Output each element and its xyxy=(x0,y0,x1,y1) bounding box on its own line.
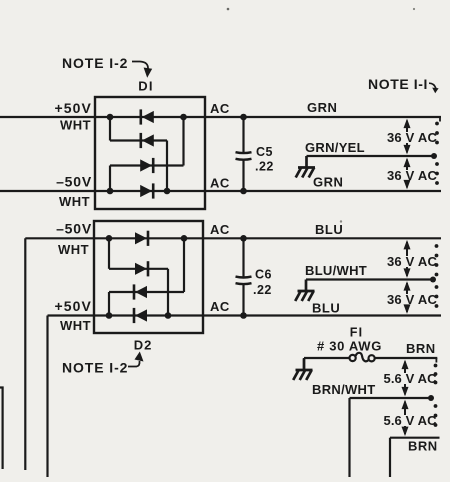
diode D2b (-50V to AC bottom) xyxy=(147,261,150,276)
wire BRN bottom drop to page bottom xyxy=(389,438,391,477)
wire center tap GRN/YEL xyxy=(307,155,435,157)
svg-text:DI: DI xyxy=(138,79,153,94)
node +50V at D2 bottom-left xyxy=(106,312,113,319)
wire D2 vertical row2 to AC bottom xyxy=(167,269,169,316)
wire center tap BLU/WHT xyxy=(306,278,433,280)
svg-text:AC: AC xyxy=(210,101,230,116)
wire +50V line / AC bottom (BLU winding) xyxy=(48,314,442,316)
wire D2 vertical AC top to row3 xyxy=(183,238,185,292)
svg-text:AC: AC xyxy=(210,222,230,237)
wire C6 bottom lead xyxy=(242,284,244,316)
dimension arrow 36VAC upper (BLU) xyxy=(404,240,411,278)
wire D2 row3 (to +50V) xyxy=(109,291,184,293)
svg-text:+50V: +50V xyxy=(55,100,93,116)
dotted continuation BRN winding upper xyxy=(434,364,438,368)
dimension arrow 36VAC lower (GRN) xyxy=(404,158,411,190)
wire D2 left vertical -50V to row2 xyxy=(108,238,110,268)
svg-text:5.6 V AC: 5.6 V AC xyxy=(384,371,438,386)
wire D2 row2 (to -50V) xyxy=(109,268,168,270)
diode D2c (AC top to +50V) xyxy=(133,284,136,299)
svg-text:WHT: WHT xyxy=(58,242,89,257)
diode D1a (AC top to +50V) xyxy=(140,109,143,124)
dotted continuation GRN winding lower xyxy=(435,162,439,166)
wire BRN drop to ground xyxy=(303,358,305,371)
svg-text:36 V AC: 36 V AC xyxy=(387,254,437,269)
node AC top at D1 top-right xyxy=(180,114,187,121)
svg-text:BRN/WHT: BRN/WHT xyxy=(312,382,375,397)
wire C5 bottom lead xyxy=(242,159,244,191)
capacitor C5 plates xyxy=(236,151,252,154)
diode D1d (-50V to AC bottom) xyxy=(152,183,155,198)
wire -50V drop to page bottom xyxy=(24,238,26,470)
wire D1 row3 (to -50V) xyxy=(110,164,184,166)
svg-text:36 V AC: 36 V AC xyxy=(387,130,437,145)
wire +50V line / AC top (GRN winding) xyxy=(0,116,441,118)
capacitor C6 plates xyxy=(236,275,252,278)
dotted continuation BLU winding lower xyxy=(435,285,439,289)
svg-text:36 V AC: 36 V AC xyxy=(387,292,437,307)
wire D1 left vertical +50V to row2 xyxy=(109,117,111,141)
arrow hook after NOTE 1-1 xyxy=(429,83,436,88)
diode D2a (-50V to AC top) xyxy=(147,231,150,246)
svg-text:36 V AC: 36 V AC xyxy=(387,168,437,183)
wire -50V line / AC top (BLU winding) xyxy=(25,237,441,239)
wire D1 vertical row2 to AC bottom xyxy=(166,141,168,192)
node C6 top junction xyxy=(240,235,247,242)
svg-text:–50V: –50V xyxy=(56,221,92,237)
svg-text:BLU: BLU xyxy=(315,222,343,237)
wire D1 vertical AC top to row3 xyxy=(182,117,184,166)
svg-text:NOTE I-2: NOTE I-2 xyxy=(62,55,128,71)
svg-text:WHT: WHT xyxy=(60,318,91,333)
wire C5 top lead xyxy=(242,117,244,153)
svg-text:WHT: WHT xyxy=(60,118,91,133)
node -50V at D2 top-left xyxy=(106,235,113,242)
svg-text:GRN/YEL: GRN/YEL xyxy=(305,140,365,155)
dotted continuation BRN winding lower xyxy=(434,404,438,408)
wire center tap BRN/WHT xyxy=(350,397,432,399)
svg-text:BRN: BRN xyxy=(406,341,436,356)
node GRN/YEL right end xyxy=(431,153,437,159)
svg-text:.22: .22 xyxy=(253,283,272,297)
dimension arrow 5.6VAC upper xyxy=(402,360,409,397)
ground at BLU center tap xyxy=(295,280,314,302)
node BRN/WHT right end xyxy=(428,395,434,401)
wire D2 left vertical row3 to +50V xyxy=(108,292,110,316)
wire D1 row2 (to +50V) xyxy=(110,139,167,141)
wire -50V line / AC bottom (GRN winding) xyxy=(0,190,441,192)
diode D2d (AC bottom to +50V) xyxy=(133,308,136,323)
fuse F1 xyxy=(353,353,372,364)
svg-text:5.6 V AC: 5.6 V AC xyxy=(384,413,438,428)
svg-text:+50V: +50V xyxy=(55,298,93,314)
svg-text:NOTE I-I: NOTE I-I xyxy=(368,76,428,92)
dotted continuation BLU winding upper xyxy=(435,244,439,248)
wire BRN bottom lead xyxy=(390,437,440,439)
dotted continuation GRN winding upper xyxy=(435,122,439,126)
wire +50V drop to page bottom xyxy=(46,316,48,478)
node -50V at D1 bottom-left xyxy=(107,188,114,195)
svg-text:AC: AC xyxy=(210,299,230,314)
node C5 bottom junction xyxy=(240,188,247,195)
dimension arrow 36VAC upper (GRN) xyxy=(404,119,411,155)
arrow from lower NOTE 1-2 to D2 xyxy=(128,361,140,367)
svg-text:C6: C6 xyxy=(255,268,272,282)
svg-text:NOTE I-2: NOTE I-2 xyxy=(62,360,128,376)
wire D1 left vertical row3 to -50V xyxy=(109,166,111,192)
node +50V at D1 top-left xyxy=(107,114,114,121)
svg-text:BRN: BRN xyxy=(408,439,438,454)
svg-text:# 30 AWG: # 30 AWG xyxy=(317,339,382,354)
diode D1b (AC bottom to +50V) xyxy=(140,133,143,148)
svg-text:GRN: GRN xyxy=(307,100,337,115)
node C6 bottom junction xyxy=(240,312,247,319)
diode D1c (-50V to AC top) xyxy=(152,158,155,173)
node AC bottom at D2 bottom-right xyxy=(165,312,172,319)
node AC top at D2 top-right xyxy=(181,235,188,242)
node C5 top junction xyxy=(240,114,247,121)
svg-text:GRN: GRN xyxy=(313,175,343,190)
svg-text:FI: FI xyxy=(350,326,364,340)
dimension arrow 5.6VAC lower xyxy=(402,400,409,437)
svg-text:AC: AC xyxy=(210,176,230,191)
svg-text:WHT: WHT xyxy=(59,194,90,209)
svg-text:–50V: –50V xyxy=(56,174,92,190)
bridge rectifier D1 outline xyxy=(95,97,205,209)
svg-text:C5: C5 xyxy=(256,145,273,159)
arrow from NOTE 1-2 to D1 xyxy=(132,62,148,70)
svg-text:.22: .22 xyxy=(255,160,274,174)
ground at BRN lead xyxy=(293,359,312,381)
wire BRN/WHT drop to page bottom xyxy=(348,398,350,477)
node BLU/WHT right end xyxy=(430,277,436,283)
wire from left edge down to page bottom xyxy=(0,388,3,470)
svg-text:BLU: BLU xyxy=(312,301,340,316)
dimension arrow 36VAC lower (BLU) xyxy=(404,281,411,314)
svg-text:D2: D2 xyxy=(134,338,153,353)
wire C6 top lead xyxy=(242,238,244,277)
node AC bottom at D1 bottom-right xyxy=(164,188,171,195)
svg-text:BLU/WHT: BLU/WHT xyxy=(305,263,367,278)
bridge rectifier D2 outline xyxy=(94,221,203,333)
ground at GRN center tap xyxy=(296,156,315,178)
wire BRN fused lead xyxy=(304,357,437,359)
